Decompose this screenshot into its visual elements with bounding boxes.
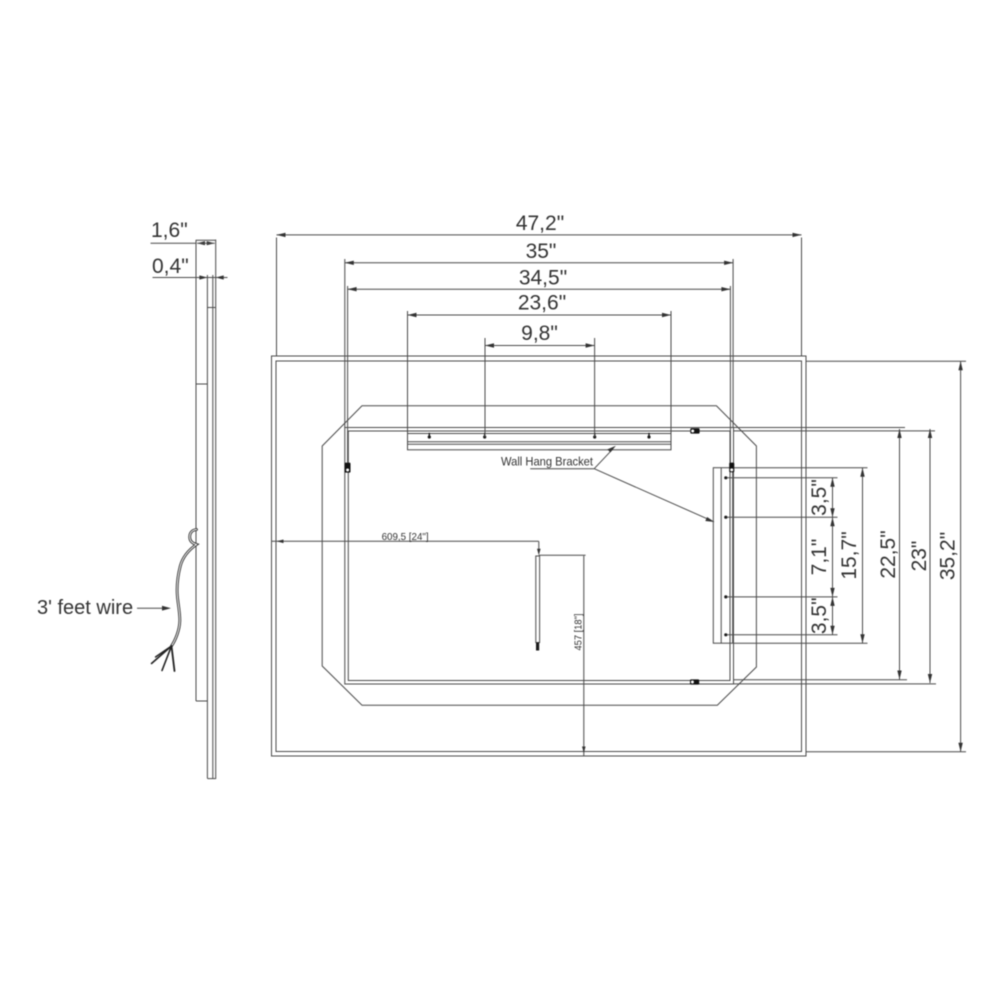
svg-text:3,5": 3,5" — [808, 597, 831, 634]
dim 47,2 — [277, 235, 802, 356]
svg-text:609,5 [24"]: 609,5 [24"] — [382, 531, 429, 543]
svg-text:457 [18"]: 457 [18"] — [572, 613, 584, 650]
side view mirror back face — [206, 275, 208, 779]
side view top edge — [196, 239, 216, 241]
svg-text:22,5": 22,5" — [877, 530, 900, 578]
mirror inner rect — [276, 361, 802, 752]
clip bottom — [690, 679, 699, 684]
side view back panel bottom tick — [196, 700, 207, 702]
dim 15,7 — [862, 468, 864, 644]
bar pin 3 — [593, 435, 596, 438]
wire strand 1 — [152, 646, 172, 664]
frame outer rect — [345, 428, 734, 685]
bracket pin 1 — [724, 476, 727, 479]
wire — [152, 530, 197, 672]
dim 0,4 — [153, 277, 228, 279]
dim 457 cable y — [583, 556, 585, 756]
svg-text:3,5": 3,5" — [808, 479, 831, 516]
svg-text:23,6": 23,6" — [518, 292, 566, 315]
label 3 feet wire — [37, 597, 171, 619]
svg-text:1,6": 1,6" — [151, 219, 188, 242]
dim 35 — [345, 259, 733, 428]
wire strand 3 — [162, 646, 172, 671]
dim 609,5 cable x — [272, 541, 586, 555]
svg-text:47,2": 47,2" — [516, 212, 564, 235]
mirror outer rect — [272, 356, 807, 756]
svg-text:0,4": 0,4" — [152, 255, 189, 278]
top wall hang bracket bar — [408, 434, 672, 450]
bracket pin 2 — [724, 516, 727, 519]
side view glass front edge — [215, 240, 217, 780]
bracket pin 4 — [724, 633, 727, 636]
side view glass bottom tick — [207, 778, 215, 780]
clip left — [345, 463, 351, 473]
bracket pin 3 — [724, 595, 727, 598]
bar pin 4 — [647, 435, 650, 438]
svg-text:15,7": 15,7" — [838, 531, 861, 579]
dim 3,5 top — [832, 478, 834, 517]
wire strand 4 — [172, 646, 175, 671]
dim 1,6 — [151, 242, 197, 244]
dim 22,5 — [899, 429, 901, 680]
led octagon — [322, 406, 756, 705]
frame inner rect — [348, 431, 730, 681]
svg-text:9,8": 9,8" — [521, 322, 558, 345]
dim 23,6 — [408, 311, 672, 450]
cable — [536, 556, 540, 651]
right dims ext rows — [728, 361, 967, 752]
clip top — [690, 428, 699, 433]
dim 23 — [929, 429, 931, 683]
svg-text:23": 23" — [908, 541, 931, 572]
dim 7,1 — [832, 517, 834, 597]
svg-text:35,2": 35,2" — [937, 532, 960, 580]
side view hook slot tick — [207, 307, 215, 309]
side view glass inner line — [212, 275, 214, 779]
svg-text:Wall Hang Bracket: Wall Hang Bracket — [501, 454, 593, 468]
label wall hang bracket — [501, 446, 715, 522]
side view panel tick — [196, 383, 207, 385]
dim 34,5 — [348, 286, 731, 463]
clip right — [729, 463, 734, 473]
svg-text:7,1": 7,1" — [808, 539, 831, 576]
right wall hang bracket bar — [713, 468, 732, 644]
dim 35,2 — [960, 361, 962, 752]
dim 9,8 — [485, 338, 595, 437]
side view back panel — [195, 240, 197, 701]
dim 3,5 bottom — [832, 597, 834, 635]
bar pin 2 — [483, 435, 486, 438]
svg-text:35": 35" — [526, 240, 557, 263]
bar pin 1 — [428, 435, 431, 438]
wire strand 2 — [156, 646, 172, 657]
svg-text:34,5": 34,5" — [519, 267, 567, 290]
svg-text:3' feet wire: 3' feet wire — [37, 597, 133, 619]
